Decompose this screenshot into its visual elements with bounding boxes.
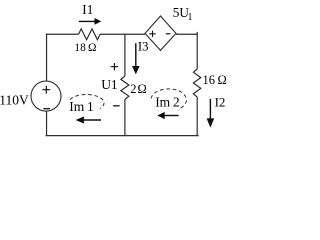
- plus sign of 110V source: [42, 86, 50, 94]
- current arrow I1: [79, 18, 101, 25]
- wire left rail upper: [46, 33, 48, 81]
- wire right rail upper: [196, 32, 198, 69]
- minus sign of 110V source: [43, 108, 50, 110]
- svg-text:I1: I1: [82, 2, 93, 17]
- voltage source 110V: [31, 81, 61, 111]
- wire top-right (source to right rail): [176, 33, 198, 35]
- mesh current loop Im2 (dashed ellipse): [151, 89, 186, 109]
- svg-text:Im 1: Im 1: [69, 99, 93, 114]
- minus sign inside diamond: [166, 33, 171, 35]
- svg-text:16 Ω: 16 Ω: [203, 73, 227, 87]
- svg-text:1: 1: [188, 12, 193, 23]
- wire middle rail upper: [124, 34, 126, 76]
- resistor 2Ω: [121, 76, 129, 100]
- wire top-middle (R1 to dependent source): [100, 33, 145, 35]
- wire bottom rail: [46, 135, 199, 137]
- current arrow I2: [207, 99, 215, 128]
- mesh arrow Im2: [157, 112, 178, 119]
- wire top-left (node top rail from left corner to R1): [46, 33, 78, 35]
- svg-text:Im 2: Im 2: [155, 95, 179, 110]
- wire right rail lower: [196, 97, 198, 136]
- wire middle rail lower: [124, 100, 126, 137]
- dependent source U1 (diamond 5U1): [145, 16, 176, 50]
- svg-text:2 Ω: 2 Ω: [130, 82, 147, 96]
- wire left rail lower: [46, 111, 48, 136]
- svg-text:18 Ω: 18 Ω: [74, 42, 96, 54]
- mesh current loop Im1 (dashed ellipse): [70, 95, 104, 109]
- svg-text:I2: I2: [215, 94, 226, 109]
- svg-text:U1: U1: [101, 77, 118, 92]
- mesh arrow Im1: [76, 116, 101, 123]
- plus sign of U1 voltage: [111, 63, 118, 70]
- svg-text:I3: I3: [138, 40, 149, 54]
- resistor 16Ω: [193, 69, 200, 97]
- minus sign of U1 voltage: [113, 105, 119, 107]
- plus sign inside diamond: [149, 31, 155, 37]
- current arrow I3: [132, 43, 140, 74]
- svg-text:110V: 110V: [0, 92, 29, 107]
- resistor 18Ω: [79, 29, 101, 40]
